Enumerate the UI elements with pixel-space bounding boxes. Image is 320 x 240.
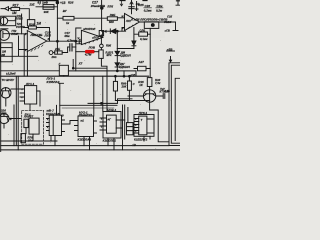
svg-text:+13: +13 [60, 1, 66, 5]
svg-text:20К: 20К [121, 84, 127, 88]
svg-text:лЛОЛЛОЛ: лЛОЛЛОЛ [82, 28, 96, 31]
svg-text:С2б: С2б [145, 4, 151, 8]
svg-text:10к: 10к [28, 138, 33, 142]
svg-text:НОВ-1: НОВ-1 [107, 108, 117, 112]
svg-text:б лЛб ЛЛОЛЛОЛб+СВЛВ: б лЛб ЛЛОЛЛОЛб+СВЛВ [131, 17, 168, 21]
svg-text:К1ЕЕЛУ2: К1ЕЕЛУ2 [134, 138, 148, 142]
svg-text:23Е: 23Е [29, 2, 35, 6]
svg-text:«СВ: «СВ [165, 29, 170, 33]
svg-text:КТ315Г: КТ315Г [160, 90, 170, 94]
svg-text:Г: Г [59, 62, 61, 66]
svg-text:А27: А27 [138, 60, 145, 64]
svg-text:R9Е: R9Е [110, 13, 116, 17]
svg-text:ЛОВ: ЛОВ [88, 46, 95, 50]
svg-text:≠Г: ≠Г [108, 118, 112, 122]
svg-text:РУЛ8Р: РУЛ8Р [16, 25, 25, 29]
svg-text:1: 1 [101, 127, 102, 129]
svg-text:«Об: «Об [130, 73, 136, 77]
svg-text:2М: 2М [0, 53, 5, 57]
svg-text:1М: 1М [37, 22, 42, 26]
svg-text:КД5Е0Л: КД5Е0Л [119, 65, 130, 69]
svg-text:Т: Т [141, 118, 143, 122]
svg-text:СВ: СВ [136, 2, 140, 6]
svg-text:СМ1б: СМ1б [164, 20, 172, 24]
svg-text:ТО ВУЛУ: ТО ВУЛУ [2, 78, 16, 82]
svg-text:Х7: Х7 [78, 62, 83, 66]
svg-text:ЛОВ2: ЛОВ2 [14, 17, 23, 21]
svg-text:ВУх: ВУх [107, 53, 113, 57]
svg-text:0,1мк: 0,1мк [140, 37, 148, 41]
svg-text:Л1ЕЕЛУ2: Л1ЕЕЛУ2 [78, 113, 93, 117]
svg-text:К1ЕЕЛАЗ: К1ЕЕЛАЗ [78, 137, 92, 141]
svg-text:К155ЛАЗ: К155ЛАЗ [47, 80, 60, 84]
svg-text:б: б [48, 37, 50, 41]
svg-text:2: 2 [24, 32, 27, 36]
svg-text:4бм: 4бм [63, 34, 70, 38]
svg-text:СЛ0: СЛ0 [140, 28, 146, 32]
svg-text:ЛЕ2: ЛЕ2 [0, 111, 7, 115]
svg-text:4,7М: 4,7М [84, 52, 92, 56]
svg-text:+5В: +5В [167, 47, 173, 51]
svg-text:R2б: R2б [68, 0, 74, 4]
svg-text:0,2мк: 0,2мк [144, 8, 152, 12]
svg-text:7,5к: 7,5к [155, 81, 161, 85]
svg-text:±3,5мб: ±3,5мб [6, 71, 16, 75]
svg-text:С1б: С1б [167, 15, 172, 19]
svg-text:б: б [100, 34, 102, 38]
svg-text:Е: Е [10, 117, 12, 121]
svg-text:ПЛбЛ: ПЛбЛ [11, 32, 18, 36]
svg-text:К1ЕЕЛЕ1: К1ЕЕЛЕ1 [103, 138, 117, 142]
svg-text:ЛУ1.1: ЛУ1.1 [25, 82, 35, 86]
svg-text:R7б: R7б [108, 4, 114, 8]
svg-text:2дп: 2дп [51, 55, 57, 59]
svg-text:4,7мк: 4,7мк [66, 39, 75, 43]
svg-text:1: 1 [47, 119, 48, 121]
svg-text:ЛУЛ: ЛУЛ [44, 33, 52, 37]
svg-text:ЛУб-1: ЛУб-1 [138, 111, 148, 115]
svg-text:R9б: R9б [106, 43, 111, 47]
svg-text:R17: R17 [13, 4, 19, 8]
svg-text:→1В: →1В [130, 143, 136, 147]
svg-text:1к: 1к [66, 21, 70, 25]
svg-text:ЛМ1УДБ: ЛМ1УДБ [30, 33, 43, 37]
svg-text:КД5Е0Л: КД5Е0Л [120, 53, 131, 57]
svg-text:«ЛОЛ: «ЛОЛ [92, 37, 99, 40]
svg-text:0,2м: 0,2м [156, 8, 163, 12]
svg-text:ЛАР0Т: ЛАР0Т [23, 115, 33, 119]
svg-text:С2м: С2м [157, 4, 164, 8]
svg-text:20мкВ15В: 20мкВ15В [90, 4, 105, 8]
svg-text:30К: 30К [44, 10, 49, 14]
svg-text:R2б: R2б [29, 22, 35, 26]
svg-text:1: 1 [22, 89, 23, 91]
svg-text:24Е: 24Е [54, 47, 60, 51]
svg-text:1К: 1К [139, 83, 143, 87]
svg-text:1пФ: 1пФ [42, 1, 49, 5]
svg-text:600: 600 [109, 20, 114, 24]
svg-text:К1ЕЕЛА8: К1ЕЕЛА8 [46, 112, 60, 116]
